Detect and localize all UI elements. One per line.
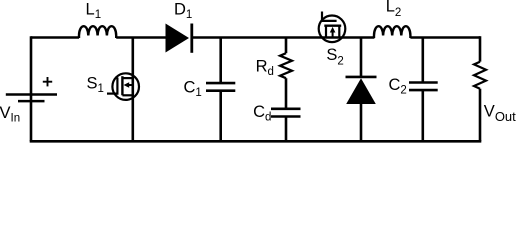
svg-text:Cd: Cd — [253, 103, 271, 124]
capacitor Cd — [271, 109, 301, 117]
wire Rd to Cd — [285, 78, 288, 109]
wire L1 to D1 — [116, 36, 166, 39]
battery VIn long plate — [6, 93, 57, 96]
battery VIn short plate — [18, 100, 45, 103]
wire L2 to top right corner — [410, 36, 480, 39]
svg-text:S2: S2 — [326, 46, 343, 68]
svg-text:VOut: VOut — [484, 102, 516, 124]
wire C1 branch lower — [219, 91, 222, 142]
capacitor C1 — [206, 83, 235, 91]
wire Cd branch lower — [285, 117, 288, 142]
wire left edge — [30, 36, 33, 141]
svg-text:D1: D1 — [174, 1, 192, 22]
wire right edge upper — [479, 36, 482, 62]
wire D2 branch upper — [360, 38, 363, 78]
resistor load (output) — [474, 62, 486, 89]
inductor L2 — [374, 26, 410, 38]
wire D2 branch lower — [360, 104, 363, 141]
wire S1 branch — [132, 38, 135, 142]
wire C2 branch upper — [421, 38, 424, 83]
diode D1 — [166, 24, 192, 53]
resistor Rd — [280, 53, 292, 78]
svg-text:Rd: Rd — [256, 58, 274, 79]
svg-text:VIn: VIn — [0, 104, 20, 125]
inductor L1 — [79, 26, 116, 38]
wire C1 branch upper — [219, 38, 222, 84]
svg-text:C2: C2 — [389, 76, 407, 97]
wire Rd branch upper — [285, 38, 288, 54]
svg-text:C1: C1 — [184, 78, 202, 99]
wire right edge lower — [479, 89, 482, 142]
wire bottom — [30, 140, 482, 143]
plus sign — [43, 77, 52, 86]
wire C2 branch lower — [421, 90, 424, 141]
capacitor C2 — [409, 83, 438, 91]
svg-text:S1: S1 — [87, 75, 104, 96]
wire D1 to S2 to L2 — [192, 36, 375, 39]
diode D2 — [346, 77, 377, 104]
transistor S2 — [319, 12, 346, 43]
transistor S1 — [107, 73, 139, 100]
svg-text:L2: L2 — [386, 0, 402, 19]
svg-text:L1: L1 — [86, 1, 102, 22]
wire top left segment — [31, 36, 79, 39]
